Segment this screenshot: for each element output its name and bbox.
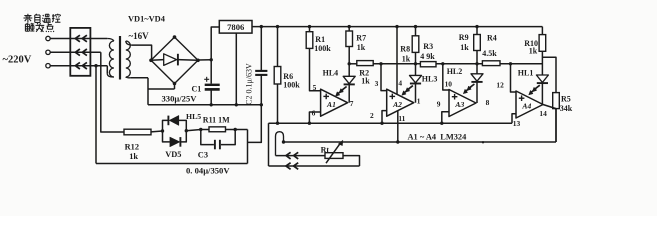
wire A2 pin3 from ladder tap [381,64,387,91]
svg-text:7806: 7806 [227,22,245,32]
node 7806 ground [235,103,238,106]
node bus R6 [276,122,279,125]
resistor R6 [274,67,281,85]
node lower bus stray [482,141,484,143]
svg-text:2: 2 [370,111,374,120]
terminal 3 (~220V) [46,63,50,67]
capacitor C1 lead upper [210,60,212,84]
op-amp A4 [516,91,543,118]
wire hook (cable to lower bus) [276,132,284,156]
resistor R12 [124,129,151,135]
resistor R9 [474,35,481,51]
capacitor C2 lead lower [260,75,262,105]
LED HL1 [536,75,548,82]
plug contacts row3 [75,62,80,69]
svg-text:HL1: HL1 [518,68,534,77]
wire A4 pin12 from ladder tap [511,64,517,92]
wire ladder row seg3 [436,63,482,65]
svg-text:R3: R3 [423,42,433,51]
node rail R6 [276,25,279,28]
node lower bus west [282,140,285,143]
svg-text:4: 4 [398,79,402,88]
wire C2 ground down to C3 node [248,105,262,143]
LED HL5 branch [163,120,169,131]
label: 来自温控 (from temperature-control) [24,15,31,17]
svg-text:13: 13 [513,119,521,128]
label: 触发点 (trigger point) [27,23,28,24]
svg-text:1k: 1k [460,43,469,52]
wire ladder row seg1 [349,63,357,65]
svg-text:C3: C3 [198,150,208,159]
wire lower bus (ground/LM324) [284,141,557,143]
node ladder tap A4+ [509,62,512,65]
svg-text:R1: R1 [315,35,325,44]
svg-text:A3: A3 [454,100,464,109]
svg-text:VD1~VD4: VD1~VD4 [128,15,166,24]
svg-text:R11 1M: R11 1M [203,115,230,124]
wire cable upper to Rt [276,155,326,157]
node ladder R8 [414,62,417,65]
svg-text:R7: R7 [356,33,366,42]
node A1 pin6 bus [308,122,311,125]
svg-text:1k: 1k [357,43,366,52]
resistor R11 [209,127,226,132]
regulator U 7806 box [219,21,252,34]
wire bottom rail [96,163,248,165]
resistor R1 [306,32,313,49]
svg-text:1k: 1k [129,152,138,161]
wire +6V top rail [252,26,542,28]
wire 7806 input riser [211,27,219,60]
resistor R5 [553,93,560,109]
svg-text:100k: 100k [283,81,300,90]
svg-text:1k: 1k [402,54,411,63]
svg-text:~220V: ~220V [3,55,32,66]
wire R11 right [226,129,248,131]
wire row3 terminal3 [50,65,107,67]
wire A3 pin9 to bus [442,112,449,123]
wire HL4 cathode to A1 out [348,85,350,103]
wire AC2 column [147,78,149,105]
wire R5 bottom corner [555,109,557,142]
node A2 pin11 [396,140,399,143]
svg-text:6: 6 [312,109,316,118]
resistor R7 lead upper [348,27,350,31]
svg-text:~16V: ~16V [129,31,150,41]
resistor R6 lead lower [277,84,279,123]
resistor R7 lead lower [348,47,350,77]
node VD5 right [185,129,188,132]
svg-text:0. 04μ/350V: 0. 04μ/350V [186,165,230,175]
bridge internal diode [151,59,164,62]
svg-text:C2 0.1μ/63V: C2 0.1μ/63V [245,63,254,105]
node row3 junction [94,64,97,67]
svg-text:4 9k: 4 9k [420,52,435,61]
LED HL3 [410,75,422,82]
wire A2 pin4 from rail [396,27,398,95]
resistor R1 lead lower to pin5 [310,48,321,90]
svg-text:A1 ~ A4 LM324: A1 ~ A4 LM324 [408,133,468,142]
resistor R2 [357,61,373,66]
wire A2 pin2 to bus [382,111,387,124]
resistor R9 lead lower [476,51,478,74]
wire bus west corner down [268,123,270,166]
wire cable return [269,165,360,167]
resistor R10 [539,35,546,52]
transformer core [119,36,121,80]
svg-text:12: 12 [496,81,504,90]
transformer T secondary winding [126,41,131,45]
wire row3 down to bottom rail [95,66,97,164]
op-amp A3 [449,90,476,117]
wire ladder row seg4 [500,63,542,65]
wire bridge bottom lead [174,84,176,89]
node rail C2 [260,25,263,28]
wire secondary bottom [130,77,148,79]
LED HL2 [471,74,483,81]
svg-text:HL5: HL5 [186,112,201,121]
svg-text:Rt: Rt [321,145,330,154]
wire R5 branch [542,57,556,92]
node ladder R9 [475,62,478,65]
node rail R7 [348,25,351,28]
capacitor C2 plates [255,70,267,72]
wire Rt to loop corner [343,156,360,166]
capacitor C3 plates [214,140,216,150]
op-amp A2 [387,89,414,116]
thermistor Rt arrow [326,143,341,163]
svg-text:9: 9 [437,100,441,109]
terminal 1 (trigger input) [46,36,50,40]
transformer T primary winding [107,39,114,42]
svg-text:R9: R9 [459,33,469,42]
svg-text:HL2: HL2 [447,67,463,76]
wire secondary top to bridge left corner [131,45,151,60]
node ladder R7/R2 [348,62,351,65]
resistor R4 [482,61,500,66]
capacitor C1 polarity + [204,78,209,80]
wire bridge output [198,59,211,61]
svg-text:1k: 1k [361,77,370,86]
wire to R11 [201,129,209,131]
ground link wire [148,104,261,106]
wire A3 pin10 from ladder tap [443,64,449,90]
capacitor C3 right lead [221,130,235,145]
wire HL1 cathode to A4 out [541,83,543,104]
resistor R8 [412,36,419,53]
wire A4 pin13 to bus [512,114,516,123]
LED HL4 [343,76,355,83]
node C1 ground [210,103,213,106]
node rail R9 [475,25,478,28]
capacitor C3 left lead [201,130,214,145]
cable plug upper [286,152,291,159]
capacitor C1 plates [205,84,220,86]
svg-text:8: 8 [486,98,490,107]
svg-text:VD5: VD5 [165,150,181,159]
capacitor C2 lead upper [260,27,262,71]
svg-text:1k: 1k [529,46,538,55]
svg-text:C1: C1 [192,84,202,93]
cable plug lower [286,163,291,170]
diode VD5 branch [163,131,170,142]
resistor R8 lead upper [415,27,417,36]
node bridge output [210,58,213,61]
svg-text:11: 11 [398,114,405,123]
resistor R5 lead lower [555,109,557,142]
wire C3 column to rail [247,130,249,164]
svg-text:R6: R6 [283,72,293,81]
plug contacts row2 [75,49,80,56]
svg-text:R12: R12 [125,143,139,152]
wire row2 terminal2 to corner [50,51,101,53]
wire AC2 to bridge bottom [148,88,175,90]
svg-text:1: 1 [417,97,421,106]
resistor R10 lead lower [541,51,543,75]
resistor R6 lead upper [277,27,279,67]
node R11 left [199,128,202,131]
wire 7806 ground pin [235,33,237,105]
svg-text:A1: A1 [326,100,336,109]
svg-text:14: 14 [539,109,547,118]
wire row2 down to R12 row [101,52,124,132]
node ladder tap A2+ [379,62,382,65]
wire rail corner to R10 [541,27,543,35]
plug contacts row1 [75,35,80,42]
wire A2 pin11 to lower bus [397,111,399,142]
svg-text:A2: A2 [392,100,402,109]
resistor R3 [420,62,436,67]
wire row1 terminal1 to plug [50,38,107,40]
svg-text:3: 3 [375,79,379,88]
wire HL2 cathode to A3 out [476,82,478,103]
svg-text:10: 10 [445,80,453,89]
svg-text:HL4: HL4 [323,69,339,78]
svg-text:7: 7 [350,99,354,108]
resistor R8 lead lower [415,52,417,75]
node rail R8 [414,25,417,28]
node ladder tap A3+ [441,62,444,65]
svg-text:A4: A4 [521,102,531,111]
resistor R9 lead upper [476,27,478,35]
resistor R1 lead upper [309,27,311,32]
wire A4 output to R5 column [543,105,556,109]
node A3 pin9 bus [440,122,443,125]
resistor R7 [346,31,353,47]
wire ladder row seg2 [373,63,420,65]
node rail R1 [308,25,311,28]
node VD5 left [161,129,164,132]
svg-text:HL3: HL3 [422,74,438,83]
svg-text:100k: 100k [314,44,331,53]
wire A1 pin6 to bus [309,112,320,123]
wire R12 to VD5 node [151,130,163,133]
wire VD5 to R11 node [186,130,201,131]
wire signal bus [269,122,513,124]
svg-text:34k: 34k [560,104,573,113]
node C2 ground [260,103,263,106]
connector block XS [70,28,90,76]
thermistor Rt box [325,153,343,159]
bridge rectifier VD1-VD4 diamond [151,37,198,83]
svg-text:4.5k: 4.5k [482,49,497,58]
terminal 2 (~220V) [46,50,50,54]
svg-text:5: 5 [313,83,317,92]
node rail pin4 [395,25,398,28]
op-amp A1 [321,89,348,116]
node R11 right [234,128,237,131]
svg-text:R4: R4 [487,33,497,42]
svg-text:R5: R5 [561,95,571,104]
node A2 pin2 bus [380,122,383,125]
svg-text:330μ/25V: 330μ/25V [162,94,198,104]
wire HL3 cathode to A2 out [415,84,417,103]
svg-text:R8: R8 [400,45,410,54]
capacitor C1 lead lower [210,89,212,104]
